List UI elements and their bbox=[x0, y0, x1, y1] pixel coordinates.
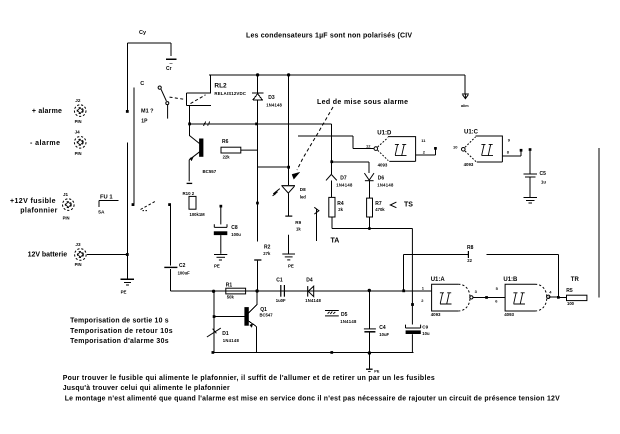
svg-text:alim: alim bbox=[461, 104, 469, 108]
svg-text:R8: R8 bbox=[467, 245, 474, 251]
svg-text:Cy: Cy bbox=[139, 30, 147, 36]
svg-text:1P: 1P bbox=[141, 119, 148, 125]
svg-text:50k: 50k bbox=[227, 294, 235, 299]
svg-text:1N4148: 1N4148 bbox=[305, 298, 321, 303]
svg-text:Temporisation de sortie 10 s: Temporisation de sortie 10 s bbox=[70, 317, 169, 324]
svg-text:BC557: BC557 bbox=[203, 169, 217, 174]
svg-text:BC547: BC547 bbox=[260, 312, 274, 317]
svg-text:1N4148: 1N4148 bbox=[336, 183, 353, 188]
svg-text:4093: 4093 bbox=[504, 312, 514, 317]
svg-text:PE: PE bbox=[288, 264, 294, 269]
svg-text:D7: D7 bbox=[340, 176, 347, 182]
svg-text:10: 10 bbox=[453, 144, 458, 149]
svg-text:9: 9 bbox=[508, 137, 511, 142]
svg-text:TR: TR bbox=[571, 277, 580, 283]
svg-text:12: 12 bbox=[366, 144, 371, 149]
svg-text:27k: 27k bbox=[263, 251, 271, 256]
svg-text:D3: D3 bbox=[268, 95, 275, 101]
svg-text:PIN: PIN bbox=[75, 151, 82, 156]
svg-text:J1: J1 bbox=[63, 192, 69, 197]
svg-text:+ alarme: + alarme bbox=[32, 108, 62, 115]
svg-text:Les condensateurs 1µF sont non: Les condensateurs 1µF sont non polarisés… bbox=[246, 33, 412, 40]
svg-text:C1: C1 bbox=[276, 278, 283, 284]
svg-text:4093: 4093 bbox=[464, 162, 474, 167]
svg-text:5: 5 bbox=[496, 286, 499, 291]
svg-text:100: 100 bbox=[567, 301, 575, 306]
svg-text:100uF: 100uF bbox=[178, 270, 191, 275]
svg-text:10u: 10u bbox=[422, 331, 430, 336]
svg-text:2k: 2k bbox=[338, 207, 343, 212]
svg-text:J4: J4 bbox=[75, 130, 81, 135]
svg-text:TA: TA bbox=[331, 238, 340, 245]
svg-text:R9: R9 bbox=[295, 220, 301, 225]
svg-text:C9: C9 bbox=[422, 325, 428, 330]
svg-text:D6: D6 bbox=[378, 176, 385, 182]
svg-text:D8: D8 bbox=[300, 187, 306, 192]
svg-text:Pour trouver le fusible qui al: Pour trouver le fusible qui alimente le … bbox=[63, 375, 435, 382]
svg-text:1N4148: 1N4148 bbox=[377, 183, 394, 188]
svg-text:2: 2 bbox=[421, 298, 424, 303]
svg-text:1k: 1k bbox=[296, 226, 301, 231]
svg-text:8: 8 bbox=[507, 149, 510, 154]
svg-text:1N4148: 1N4148 bbox=[223, 338, 240, 343]
svg-text:100u: 100u bbox=[231, 232, 241, 237]
svg-text:22k: 22k bbox=[223, 155, 231, 160]
svg-text:R5: R5 bbox=[566, 288, 573, 294]
svg-text:1N4148: 1N4148 bbox=[340, 319, 357, 324]
svg-text:U1:B: U1:B bbox=[503, 277, 518, 283]
svg-text:J3: J3 bbox=[75, 242, 81, 247]
svg-text:12V batterie: 12V batterie bbox=[28, 251, 68, 258]
svg-text:100k1M: 100k1M bbox=[190, 212, 206, 217]
svg-text:470k: 470k bbox=[375, 207, 385, 212]
svg-text:plafonnier: plafonnier bbox=[20, 208, 57, 215]
svg-text:D1: D1 bbox=[222, 331, 229, 337]
svg-text:led: led bbox=[300, 195, 306, 200]
svg-text:1: 1 bbox=[422, 286, 425, 291]
svg-text:3: 3 bbox=[475, 289, 478, 294]
svg-text:5A: 5A bbox=[98, 209, 105, 215]
svg-text:2: 2 bbox=[423, 150, 426, 155]
svg-text:1u: 1u bbox=[541, 180, 546, 185]
svg-text:D5: D5 bbox=[341, 312, 348, 318]
svg-text:RL2: RL2 bbox=[214, 82, 227, 89]
svg-text:C: C bbox=[140, 81, 144, 87]
svg-text:C4: C4 bbox=[379, 325, 386, 331]
svg-text:Cr: Cr bbox=[166, 66, 172, 72]
svg-text:4093: 4093 bbox=[431, 312, 441, 317]
svg-text:6: 6 bbox=[495, 299, 498, 304]
svg-text:C8: C8 bbox=[231, 225, 238, 231]
svg-text:Temporisation de retour 10s: Temporisation de retour 10s bbox=[70, 328, 173, 335]
svg-text:D4: D4 bbox=[306, 278, 313, 284]
svg-text:R1: R1 bbox=[226, 282, 233, 288]
svg-text:M1 ?: M1 ? bbox=[141, 108, 154, 114]
svg-text:Temporisation d'alarme 30s: Temporisation d'alarme 30s bbox=[70, 338, 169, 345]
svg-text:C2: C2 bbox=[179, 263, 186, 269]
svg-text:C5: C5 bbox=[540, 171, 547, 177]
svg-text:- alarme: - alarme bbox=[30, 140, 60, 147]
svg-text:1N4148: 1N4148 bbox=[266, 102, 282, 107]
svg-text:PIN: PIN bbox=[63, 215, 70, 220]
svg-text:TS: TS bbox=[404, 201, 413, 208]
svg-text:11: 11 bbox=[421, 138, 426, 143]
svg-text:R10 2: R10 2 bbox=[183, 191, 195, 196]
svg-text:1u0F: 1u0F bbox=[276, 298, 286, 303]
svg-text:4093: 4093 bbox=[378, 163, 388, 168]
svg-text:J2: J2 bbox=[75, 98, 81, 103]
svg-text:U1:D: U1:D bbox=[377, 131, 392, 137]
svg-text:+12V fusible: +12V fusible bbox=[10, 198, 56, 205]
svg-text:U1:A: U1:A bbox=[431, 277, 446, 283]
svg-text:R6: R6 bbox=[222, 139, 229, 145]
svg-text:Jusqu'à trouver celui qui alim: Jusqu'à trouver celui qui alimente le pl… bbox=[63, 385, 230, 392]
svg-text:Led de mise sous alarme: Led de mise sous alarme bbox=[317, 99, 408, 106]
svg-text:R2: R2 bbox=[264, 245, 271, 251]
svg-text:PE: PE bbox=[121, 290, 127, 295]
svg-text:10uF: 10uF bbox=[379, 332, 389, 337]
svg-text:22: 22 bbox=[467, 258, 472, 263]
svg-text:FU 1: FU 1 bbox=[100, 195, 113, 201]
svg-text:RELAIS12VDC: RELAIS12VDC bbox=[214, 91, 246, 96]
svg-text:U1:C: U1:C bbox=[464, 130, 479, 136]
svg-text:4: 4 bbox=[549, 290, 552, 295]
svg-text:PIN: PIN bbox=[75, 262, 82, 267]
svg-text:PE: PE bbox=[374, 369, 380, 373]
svg-text:PE: PE bbox=[214, 263, 220, 268]
svg-text:PIN: PIN bbox=[75, 119, 82, 124]
svg-text:Le montage n'est alimenté que: Le montage n'est alimenté que quand l'al… bbox=[65, 395, 560, 402]
